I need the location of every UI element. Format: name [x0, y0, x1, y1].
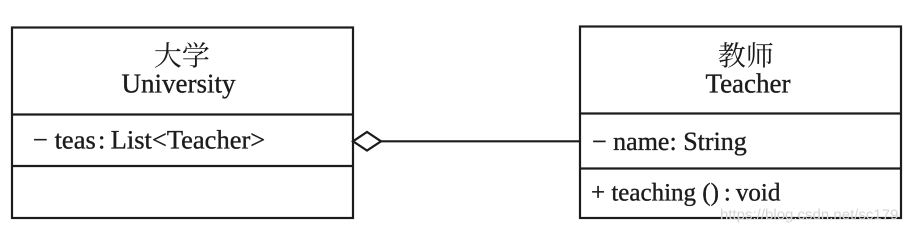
wire association line — [380, 140, 580, 142]
label 教师 — [719, 42, 773, 68]
svg-text:University: University — [122, 69, 236, 99]
svg-text:+ teaching () : void: + teaching () : void — [591, 180, 781, 207]
svg-text:https://blog.csdn.net/sc179: https://blog.csdn.net/sc179 — [720, 207, 898, 224]
svg-text:− teas : List<Teacher>: − teas : List<Teacher> — [33, 125, 265, 155]
label 大学 — [155, 42, 209, 68]
aggregation diamond — [353, 132, 381, 151]
svg-text:Teacher: Teacher — [705, 69, 790, 99]
class box University — [12, 28, 353, 219]
svg-text:− name: String: − name: String — [592, 127, 747, 156]
class box Teacher — [580, 27, 901, 219]
